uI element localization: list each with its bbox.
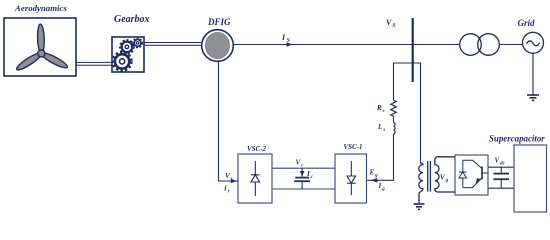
shaft wire (gearbox to DFIG, double line) bbox=[144, 43, 201, 46]
wire T2 secondary to converter bbox=[438, 157, 456, 192]
svg-text:Vdc: Vdc bbox=[495, 157, 506, 167]
svg-text:Grid: Grid bbox=[518, 18, 536, 28]
grid source (AC circle) bbox=[523, 32, 544, 53]
DC link wire bottom bbox=[272, 188, 335, 190]
svg-text:DFIG: DFIG bbox=[207, 17, 231, 27]
resistor R_s bbox=[391, 100, 396, 116]
arrow I_S bbox=[287, 42, 293, 47]
chopper diode branch bbox=[459, 160, 467, 187]
DC link wire top bbox=[272, 167, 335, 169]
svg-text:Supercapacitor: Supercapacitor bbox=[489, 134, 545, 144]
wire resistor to inductor bbox=[393, 116, 395, 122]
transformer T2 left winding bbox=[419, 163, 423, 203]
svg-text:Ir: Ir bbox=[223, 185, 230, 195]
wire branch top bbox=[394, 63, 421, 164]
chopper IGBT branch bbox=[463, 160, 488, 187]
wire converter to supercapacitor top bbox=[488, 166, 514, 168]
svg-text:VSC-1: VSC-1 bbox=[344, 143, 363, 151]
gear large bbox=[113, 53, 131, 71]
gearbox box bbox=[112, 37, 144, 72]
DFIG machine (double circle) bbox=[202, 30, 234, 62]
svg-text:Gearbox: Gearbox bbox=[114, 14, 150, 25]
gear medium bbox=[120, 40, 133, 53]
converter box (chopper) bbox=[455, 155, 488, 195]
transformer T2 core bbox=[428, 161, 431, 192]
ground grid bbox=[527, 95, 539, 100]
VSC-1 thyristor symbol (pointing down) bbox=[347, 161, 356, 195]
arrow I_c (down) bbox=[300, 171, 305, 176]
arrow I_r (pointing right into VSC-2) bbox=[231, 179, 237, 184]
transformer grid (two overlapping circles) bbox=[460, 34, 482, 56]
svg-text:VSC-2: VSC-2 bbox=[247, 145, 267, 153]
aerodynamics box bbox=[4, 18, 76, 76]
supercapacitor box bbox=[514, 145, 547, 212]
transformer T2 right winding bbox=[435, 157, 439, 192]
VSC-2 box bbox=[238, 154, 272, 203]
svg-text:Vg: Vg bbox=[440, 174, 449, 184]
inductor L_s bbox=[394, 123, 396, 134]
bus bar V_S bbox=[412, 18, 414, 82]
VSC-2 thyristor symbol (pointing up) bbox=[251, 161, 260, 196]
wire transformer to grid bbox=[499, 44, 522, 46]
capacitor C dc-link bbox=[294, 168, 310, 189]
wire converter to supercapacitor bottom bbox=[488, 187, 514, 189]
arrow I_g (pointing left into VSC-1) bbox=[371, 178, 377, 183]
VSC-1 box bbox=[335, 154, 367, 203]
svg-text:Ig: Ig bbox=[378, 182, 386, 192]
svg-text:IS: IS bbox=[281, 33, 291, 44]
wire stator (DFIG to grid bus) bbox=[233, 44, 459, 46]
gear small bbox=[133, 39, 142, 48]
wire inductor down and left into VSC-1 bbox=[367, 134, 393, 180]
svg-text:Rs: Rs bbox=[376, 104, 385, 114]
svg-text:Vc: Vc bbox=[296, 159, 305, 169]
wire grid to ground bbox=[532, 53, 534, 94]
wind turbine rotor (3 blades) bbox=[15, 24, 69, 72]
wire rotor (DFIG down to VSC-2) bbox=[219, 61, 239, 181]
svg-text:Aerodynamics: Aerodynamics bbox=[14, 3, 67, 13]
shaft wire (aerodynamics to gearbox, double line) bbox=[76, 62, 113, 65]
svg-text:VS: VS bbox=[386, 18, 396, 29]
ground transformer bbox=[414, 204, 425, 209]
svg-text:Eg: Eg bbox=[369, 169, 379, 179]
svg-text:Ls: Ls bbox=[377, 123, 385, 133]
capacitor V_dc bbox=[494, 167, 510, 188]
